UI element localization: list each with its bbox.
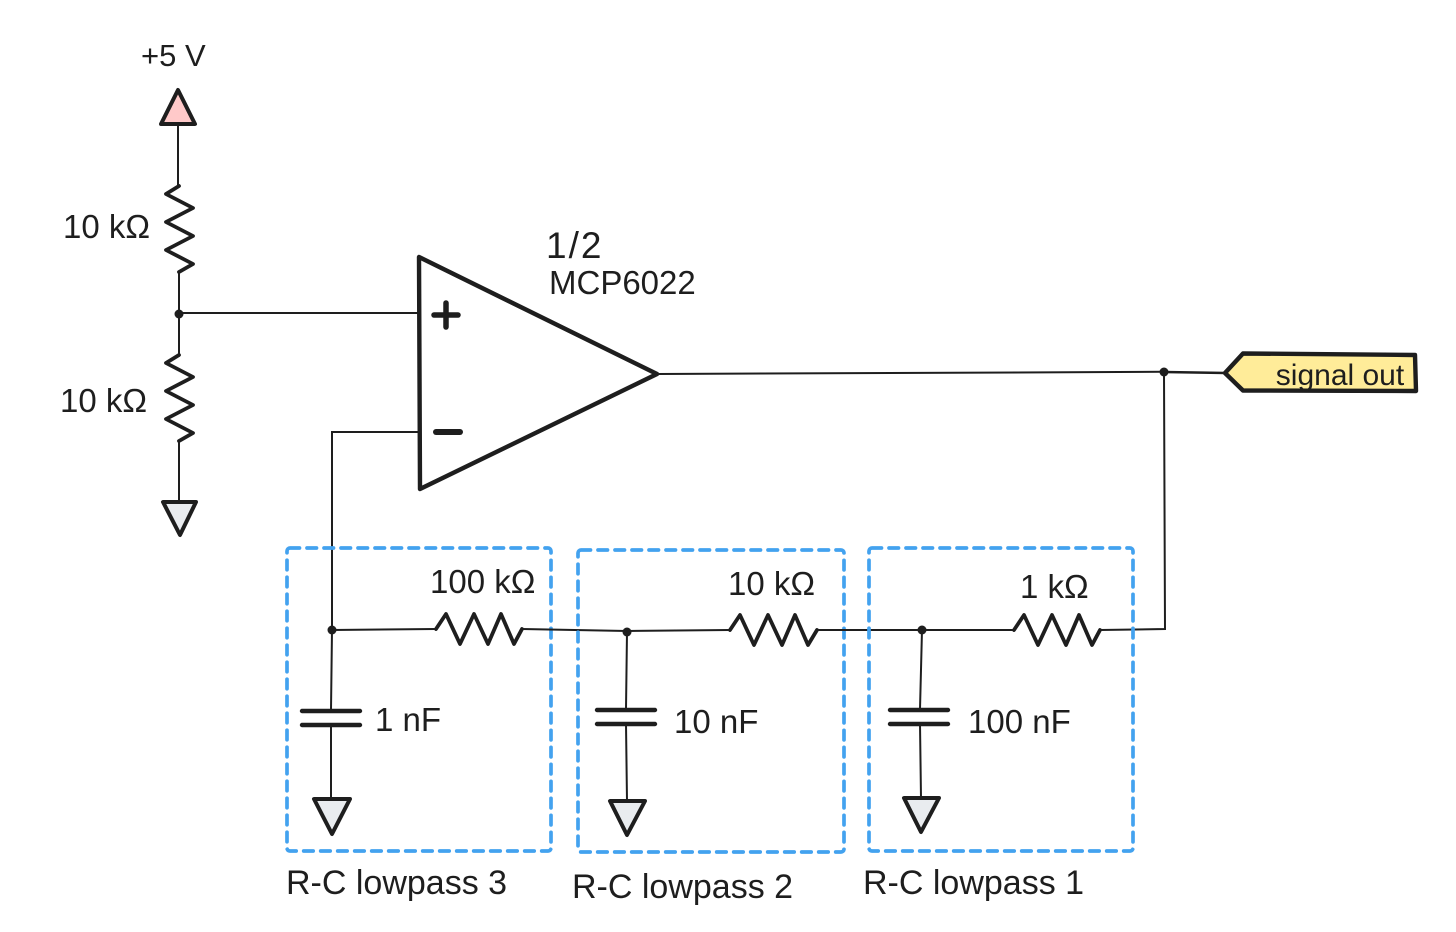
resistor R1 10 kOhm: [166, 186, 193, 272]
op-amp U1: [419, 257, 657, 489]
svg-text:1 kΩ: 1 kΩ: [1020, 568, 1089, 605]
svg-text:signal out: signal out: [1276, 359, 1405, 392]
wire C1 to ground: [920, 724, 921, 798]
svg-text:10 nF: 10 nF: [674, 703, 758, 740]
wire power to R1: [177, 126, 179, 187]
capacitor C2 10 nF: [597, 710, 655, 724]
wire node N3 to R3: [332, 629, 436, 630]
wire R3 to node N2: [522, 629, 627, 631]
node N1: [918, 626, 927, 635]
ground G2: [610, 801, 645, 835]
box R-C lowpass 2: [578, 550, 844, 852]
node output: [1160, 368, 1169, 377]
wire node N1 to C1: [920, 630, 922, 709]
wire R4 to node N1: [817, 629, 922, 631]
box R-C lowpass 3: [287, 548, 551, 851]
resistor R4 10 kOhm: [730, 615, 817, 645]
wire output node to flag: [1164, 372, 1226, 373]
svg-text:+5 V: +5 V: [141, 38, 206, 73]
node divider: [175, 310, 184, 319]
box R-C lowpass 1: [869, 548, 1133, 851]
wire R2 to ground: [178, 441, 180, 502]
svg-text:1/2: 1/2: [546, 225, 603, 266]
resistor R2 10 kOhm: [166, 355, 193, 441]
svg-text:10 kΩ: 10 kΩ: [63, 208, 150, 245]
power symbol +5V: [161, 90, 195, 124]
op-amp plus sign: [434, 303, 458, 327]
wire node N2 to R2b: [627, 630, 730, 631]
svg-text:MCP6022: MCP6022: [549, 264, 696, 301]
wire node to R2: [178, 314, 180, 356]
wire node N3 to C3: [331, 630, 332, 710]
svg-text:10 kΩ: 10 kΩ: [60, 382, 147, 419]
node N2: [623, 628, 632, 637]
wire node N1 to R5: [922, 629, 1014, 631]
resistor R3 100 kOhm: [436, 614, 522, 644]
wire C2 to ground: [626, 724, 627, 801]
capacitor C3 1 nF: [302, 711, 360, 725]
wire op-amp output: [657, 372, 1164, 374]
svg-text:R-C lowpass 3: R-C lowpass 3: [286, 864, 507, 902]
svg-text:10 kΩ: 10 kΩ: [728, 565, 815, 602]
svg-text:R-C lowpass 2: R-C lowpass 2: [572, 868, 793, 906]
svg-text:1 nF: 1 nF: [375, 701, 441, 738]
wire output node down to ladder: [1100, 372, 1165, 630]
ground G3: [314, 799, 350, 834]
svg-text:R-C lowpass 1: R-C lowpass 1: [863, 864, 1084, 902]
ground G1: [904, 798, 939, 832]
wire node N2 to C2: [626, 632, 627, 709]
capacitor C1 100 nF: [890, 710, 948, 724]
node N3: [328, 626, 337, 635]
wire node to op-amp + input: [179, 312, 419, 314]
svg-text:100 kΩ: 100 kΩ: [430, 563, 535, 600]
flag signal out: [1225, 354, 1416, 392]
op-amp minus sign: [436, 429, 460, 435]
resistor R5 1 kOhm: [1014, 615, 1100, 645]
wire C3 to ground: [330, 725, 332, 799]
svg-text:100 nF: 100 nF: [968, 703, 1071, 740]
ground divider: [163, 502, 196, 535]
wire op-amp minus input: [332, 432, 419, 628]
wire R1 to node: [178, 272, 180, 314]
